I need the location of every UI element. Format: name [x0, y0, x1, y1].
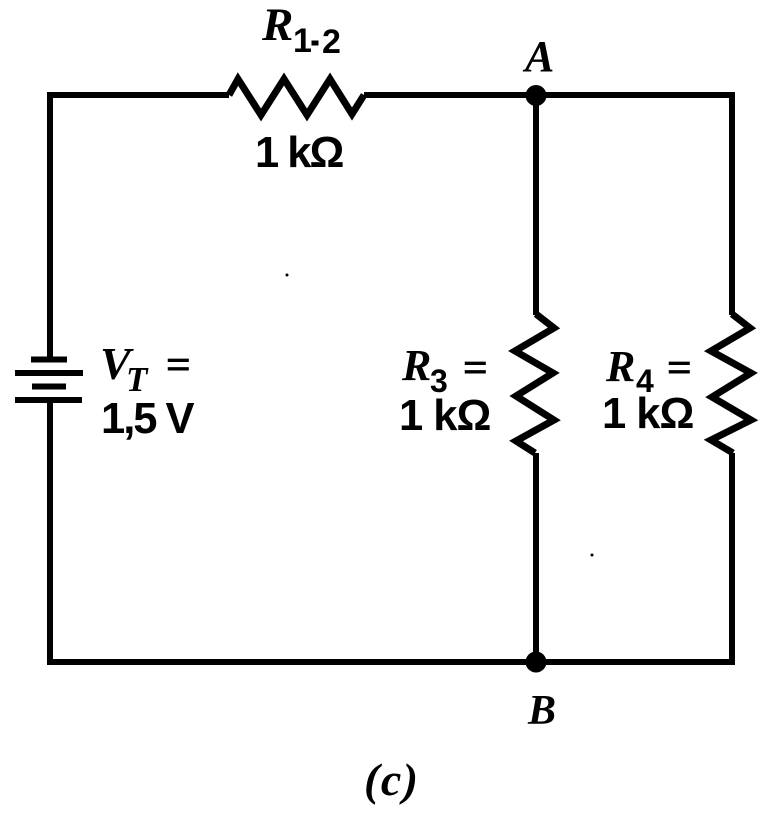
- svg-text:1: 1: [293, 22, 312, 60]
- svg-text:R: R: [605, 342, 635, 391]
- node B junction dot: [526, 652, 547, 673]
- svg-text:=: =: [667, 350, 692, 385]
- svg-text:=: =: [463, 350, 488, 385]
- svg-text:T: T: [126, 360, 149, 399]
- wire: left side, lower segment (battery down to bottom-left corner): [47, 400, 53, 662]
- svg-text:=: =: [166, 347, 191, 382]
- wire: middle branch, upper segment (node A down to R3): [533, 95, 539, 315]
- wire: right side, lower segment (R4 down to bottom-right corner): [729, 453, 735, 665]
- wire: bottom side (bottom-left corner to bottom-right corner): [47, 659, 735, 665]
- resistor R3 zigzag: [515, 314, 554, 453]
- battery VT plate 2 (long): [15, 370, 83, 376]
- battery VT plate 1 (short, top): [31, 357, 67, 363]
- svg-text:2: 2: [322, 23, 341, 61]
- resistor R4 zigzag: [711, 314, 751, 453]
- svg-text:1 kΩ: 1 kΩ: [399, 392, 490, 440]
- resistor R1-2 zigzag: [229, 79, 364, 115]
- svg-text:B: B: [527, 688, 556, 734]
- wire: right side, upper segment (top-right corner down to R4): [729, 92, 735, 315]
- speck artifact lower: [591, 554, 594, 557]
- wire: left side, upper segment (top-left corner down to battery): [47, 92, 53, 362]
- wire: top side, left segment (top-left corner to R1-2): [50, 92, 229, 98]
- svg-text:A: A: [522, 32, 554, 81]
- battery VT plate 3 (short): [32, 384, 66, 390]
- battery VT plate 4 (long, bottom): [15, 397, 82, 403]
- svg-text:R: R: [401, 341, 431, 390]
- wire: top side, right segment (R1-2 to top-right corner): [364, 92, 732, 98]
- node A junction dot: [526, 85, 547, 106]
- wire: middle branch, lower segment (R3 down to node B): [533, 453, 539, 662]
- svg-text:R: R: [261, 0, 293, 51]
- svg-text:1,5 V: 1,5 V: [101, 395, 195, 443]
- svg-text:(c): (c): [364, 754, 420, 805]
- speck artifact upper: [286, 274, 289, 277]
- svg-text:1 kΩ: 1 kΩ: [255, 129, 343, 177]
- svg-text:1 kΩ: 1 kΩ: [602, 390, 693, 438]
